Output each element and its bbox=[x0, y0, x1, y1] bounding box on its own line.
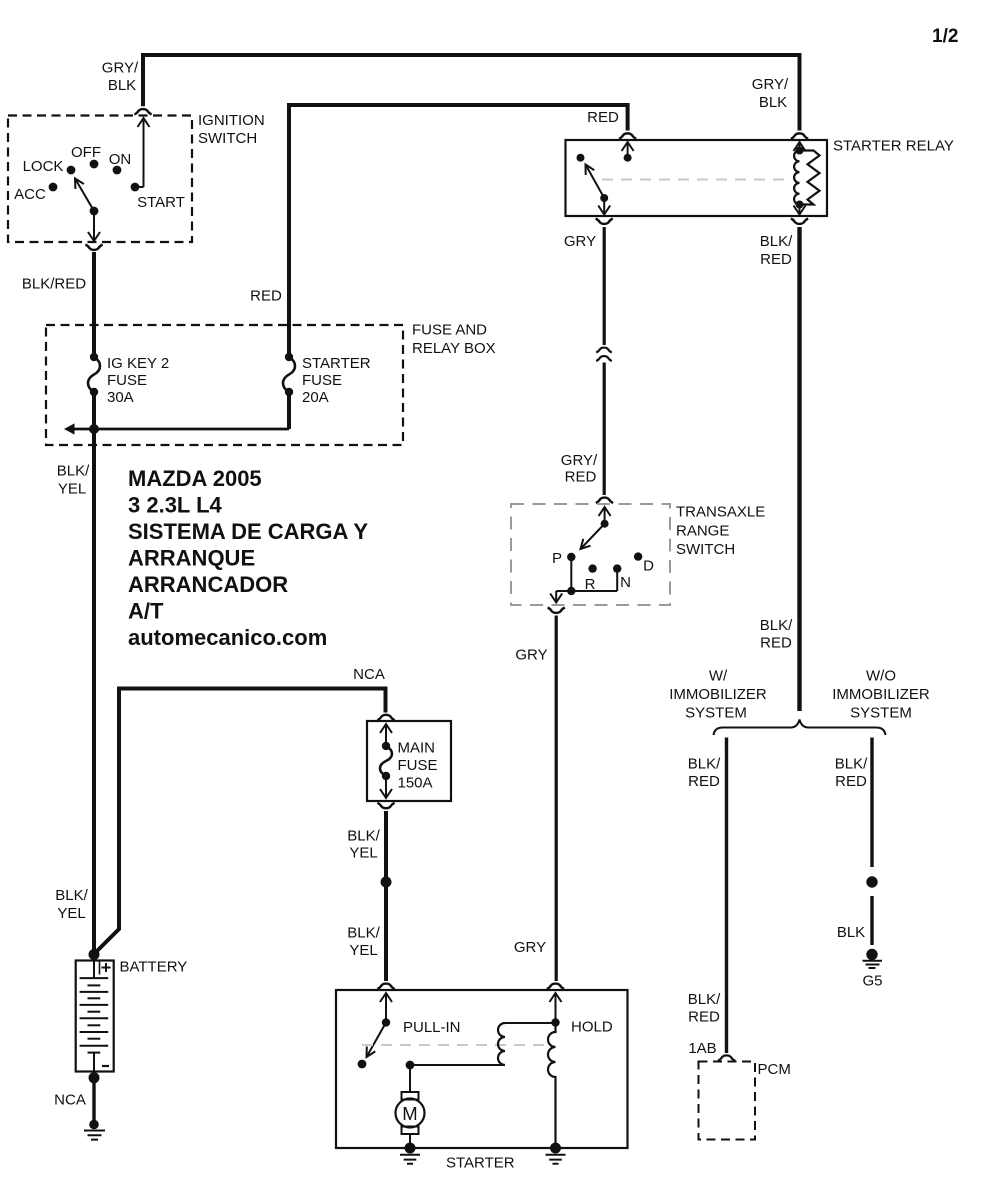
connector cup below relay switch bbox=[596, 219, 613, 224]
svg-text:YEL: YEL bbox=[58, 481, 86, 498]
svg-text:ACC: ACC bbox=[14, 186, 46, 203]
svg-text:D: D bbox=[643, 558, 654, 575]
ignition output arrow down bbox=[93, 211, 95, 240]
svg-text:RED: RED bbox=[250, 288, 282, 305]
svg-text:RED: RED bbox=[587, 109, 619, 126]
svg-text:BLK/: BLK/ bbox=[835, 756, 868, 773]
connector cup above starter relay coil pin bbox=[791, 133, 808, 138]
svg-text:BLK/: BLK/ bbox=[688, 991, 721, 1008]
svg-text:GRY/: GRY/ bbox=[752, 76, 789, 93]
battery BATTERY bbox=[76, 961, 114, 1072]
main fuse output arrow down bbox=[385, 776, 387, 797]
svg-text:1AB: 1AB bbox=[688, 1040, 716, 1057]
wire GRY/BLK ignition to starter relay bbox=[143, 55, 800, 131]
battery plates bbox=[80, 978, 109, 1053]
svg-text:automecanico.com: automecanico.com bbox=[128, 625, 327, 650]
wire BLK/RED relay to immobilizer brace bbox=[797, 227, 801, 711]
relay fixed contact bbox=[577, 154, 585, 162]
svg-text:IMMOBILIZER: IMMOBILIZER bbox=[832, 686, 930, 703]
svg-text:TRANSAXLE: TRANSAXLE bbox=[676, 504, 765, 521]
fuse IG KEY 2 30A bbox=[90, 353, 98, 361]
svg-text:BLK: BLK bbox=[837, 924, 865, 941]
MAIN FUSE box bbox=[367, 721, 451, 801]
motor M bbox=[402, 1092, 419, 1100]
svg-text:STARTER: STARTER bbox=[302, 355, 371, 372]
svg-text:STARTER: STARTER bbox=[446, 1155, 515, 1172]
connector cup below transaxle switch bbox=[548, 608, 565, 613]
wire with left arrow inside fuse box bbox=[72, 428, 289, 431]
svg-text:OFF: OFF bbox=[71, 144, 101, 161]
svg-text:RED: RED bbox=[688, 1009, 720, 1026]
svg-text:IMMOBILIZER: IMMOBILIZER bbox=[669, 686, 767, 703]
wire BLK/RED to PCM bbox=[725, 738, 728, 1054]
contact N bbox=[613, 564, 621, 572]
starter relay U1 box bbox=[566, 140, 828, 216]
connector cup above starter pull-in pin bbox=[377, 984, 394, 989]
svg-text:G5: G5 bbox=[862, 973, 882, 990]
connector cup at PCM bbox=[718, 1055, 735, 1060]
svg-text:BLK/: BLK/ bbox=[57, 463, 90, 480]
connector cup below relay coil bbox=[791, 219, 808, 224]
svg-text:BLK: BLK bbox=[108, 77, 136, 94]
starter hold input arrow up bbox=[555, 994, 557, 1023]
wire through STARTER fuse bbox=[287, 325, 291, 429]
svg-text:SYSTEM: SYSTEM bbox=[685, 705, 747, 722]
splice node bbox=[866, 876, 877, 887]
svg-text:BATTERY: BATTERY bbox=[120, 959, 188, 976]
fuse STARTER 20A bbox=[285, 353, 293, 361]
starter mechanical linkage dashed bbox=[362, 1044, 549, 1046]
connector cup at ignition switch top bbox=[134, 109, 151, 114]
pull-in coil top link to hold pin bbox=[505, 1022, 556, 1024]
svg-text:BLK: BLK bbox=[759, 94, 787, 111]
wire BLK/RED ignition to fuse box bbox=[92, 252, 96, 325]
svg-text:IGNITION: IGNITION bbox=[198, 112, 265, 129]
svg-text:BLK/: BLK/ bbox=[55, 887, 88, 904]
svg-text:M: M bbox=[402, 1103, 417, 1124]
hold coil L2 bbox=[548, 1023, 555, 1149]
svg-text:YEL: YEL bbox=[349, 942, 377, 959]
brace split symbol bbox=[714, 720, 886, 736]
battery bottom stub bbox=[93, 1053, 95, 1072]
splice node on BLK/YEL bbox=[381, 877, 392, 888]
wire NCA battery to main fuse bbox=[94, 689, 386, 955]
transaxle range switch box bbox=[511, 504, 670, 605]
relay mechanical linkage dashed bbox=[602, 179, 790, 181]
contact ON bbox=[113, 166, 122, 175]
wire through IG KEY 2 fuse bbox=[92, 325, 96, 445]
PCM box bbox=[699, 1062, 756, 1140]
ground starter motor bbox=[405, 1143, 416, 1154]
battery minus sign bbox=[102, 1065, 109, 1067]
svg-text:HOLD: HOLD bbox=[571, 1019, 613, 1036]
svg-text:N: N bbox=[620, 574, 631, 591]
svg-text:BLK/: BLK/ bbox=[760, 617, 793, 634]
svg-text:P: P bbox=[552, 550, 562, 567]
fuse MAIN 150A bbox=[382, 742, 390, 750]
fuse and relay box bbox=[46, 325, 403, 445]
relay moving contact arm bbox=[600, 194, 608, 202]
contact OFF bbox=[90, 160, 99, 169]
svg-text:SWITCH: SWITCH bbox=[676, 541, 735, 558]
in-line connector on GRY wire bbox=[596, 348, 612, 353]
ignition switch box bbox=[8, 116, 192, 243]
contact START bbox=[131, 183, 140, 192]
relay coil output arrow down bbox=[799, 205, 801, 214]
svg-text:FUSE: FUSE bbox=[107, 372, 147, 389]
ground battery bbox=[89, 1120, 99, 1130]
transaxle selector arm arrow to P bbox=[581, 524, 605, 549]
svg-text:RED: RED bbox=[760, 635, 792, 652]
svg-text:MAZDA 2005: MAZDA 2005 bbox=[128, 466, 262, 491]
svg-text:PULL-IN: PULL-IN bbox=[403, 1019, 461, 1036]
svg-text:A/T: A/T bbox=[128, 599, 164, 624]
svg-text:RED: RED bbox=[565, 469, 597, 486]
svg-text:ARRANQUE: ARRANQUE bbox=[128, 546, 255, 571]
svg-text:NCA: NCA bbox=[54, 1092, 86, 1109]
ground starter hold bbox=[550, 1143, 561, 1154]
svg-text:YEL: YEL bbox=[349, 845, 377, 862]
svg-text:FUSE: FUSE bbox=[302, 372, 342, 389]
relay coil pin arrow up bbox=[799, 143, 801, 151]
wire BLK/YEL main fuse to starter bbox=[384, 811, 388, 981]
svg-text:SYSTEM: SYSTEM bbox=[850, 705, 912, 722]
junction node at fuse box bbox=[89, 424, 99, 434]
svg-text:GRY/: GRY/ bbox=[102, 60, 139, 77]
connector cup below ignition switch bbox=[85, 245, 102, 250]
svg-text:SWITCH: SWITCH bbox=[198, 130, 257, 147]
starter switch arm arrow bbox=[367, 1023, 387, 1058]
connector cup below MAIN FUSE bbox=[377, 803, 394, 808]
pull-in coil bottom link to motor bbox=[410, 1064, 505, 1066]
battery negative node bbox=[89, 1072, 100, 1083]
relay pin RED with up arrow bbox=[627, 143, 629, 158]
main fuse input arrow up bbox=[385, 725, 387, 746]
contact P bbox=[567, 553, 575, 561]
relay coil parallel resistor bbox=[800, 151, 820, 205]
starter pull-in input arrow up bbox=[385, 994, 387, 1023]
wire BLK/RED to ground G5 bbox=[870, 738, 873, 946]
svg-text:BLK/RED: BLK/RED bbox=[22, 276, 86, 293]
svg-text:BLK/: BLK/ bbox=[347, 925, 380, 942]
svg-text:ARRANCADOR: ARRANCADOR bbox=[128, 572, 288, 597]
transaxle internal wiring P-N junction bbox=[556, 557, 617, 591]
svg-text:ON: ON bbox=[109, 151, 132, 168]
wire GRY relay to transaxle switch bbox=[603, 227, 606, 345]
starter box bbox=[336, 990, 628, 1148]
pull-in coil L1 bbox=[498, 1023, 505, 1065]
svg-text:BLK/: BLK/ bbox=[347, 828, 380, 845]
ignition internal wire START to top pin with arrow bbox=[135, 119, 144, 187]
svg-text:FUSE: FUSE bbox=[398, 757, 438, 774]
wire BLK/YEL fuse box to battery bbox=[92, 445, 96, 953]
connector cup above starter relay pin 1 bbox=[619, 133, 636, 138]
svg-text:YEL: YEL bbox=[57, 905, 85, 922]
svg-text:BLK/: BLK/ bbox=[688, 756, 721, 773]
svg-text:RED: RED bbox=[835, 773, 867, 790]
svg-text:START: START bbox=[137, 194, 185, 211]
svg-text:3 2.3L L4: 3 2.3L L4 bbox=[128, 493, 223, 518]
svg-text:SISTEMA DE CARGA Y: SISTEMA DE CARGA Y bbox=[128, 519, 368, 544]
svg-text:RANGE: RANGE bbox=[676, 523, 729, 540]
svg-text:GRY: GRY bbox=[515, 647, 547, 664]
contact LOCK bbox=[67, 166, 76, 175]
svg-text:STARTER RELAY: STARTER RELAY bbox=[833, 138, 954, 155]
relay coil bbox=[794, 151, 799, 205]
svg-text:RED: RED bbox=[760, 251, 792, 268]
svg-text:GRY: GRY bbox=[514, 939, 546, 956]
contact R bbox=[588, 564, 596, 572]
connector cup above starter hold pin bbox=[547, 984, 564, 989]
ignition rotor pivot bbox=[90, 207, 99, 216]
motor feed wire bbox=[409, 1065, 411, 1092]
battery junction node bbox=[89, 949, 100, 960]
svg-text:RED: RED bbox=[688, 773, 720, 790]
battery top stub bbox=[93, 961, 95, 979]
svg-text:W/: W/ bbox=[709, 668, 728, 685]
svg-text:FUSE AND: FUSE AND bbox=[412, 322, 487, 339]
battery plus terminal bbox=[99, 961, 101, 975]
connector cup above MAIN FUSE bbox=[377, 715, 394, 720]
svg-text:GRY: GRY bbox=[564, 233, 596, 250]
svg-text:30A: 30A bbox=[107, 389, 134, 406]
svg-text:RELAY BOX: RELAY BOX bbox=[412, 340, 496, 357]
svg-text:1/2: 1/2 bbox=[932, 26, 958, 47]
svg-text:IG KEY 2: IG KEY 2 bbox=[107, 355, 169, 372]
svg-text:LOCK: LOCK bbox=[23, 158, 64, 175]
wire NCA battery to ground bbox=[92, 1078, 95, 1122]
svg-text:150A: 150A bbox=[398, 775, 433, 792]
contact D bbox=[634, 552, 642, 560]
wire GRY transaxle to starter bbox=[555, 616, 558, 982]
contact ACC bbox=[49, 183, 58, 192]
connector cup above transaxle switch bbox=[596, 498, 613, 503]
svg-text:NCA: NCA bbox=[353, 666, 385, 683]
svg-text:W/O: W/O bbox=[866, 668, 896, 685]
motor ground wire bbox=[409, 1134, 411, 1148]
relay switch output arrow down bbox=[603, 198, 605, 213]
svg-text:BLK/: BLK/ bbox=[760, 233, 793, 250]
transaxle input arrow up bbox=[604, 508, 606, 524]
svg-text:MAIN: MAIN bbox=[398, 740, 436, 757]
svg-text:20A: 20A bbox=[302, 389, 329, 406]
svg-text:PCM: PCM bbox=[758, 1061, 791, 1078]
transaxle output arrow down bbox=[555, 591, 557, 601]
ignition rotor arm arrow toward LOCK bbox=[75, 179, 94, 212]
wire RED ignition-area to relay and fuse box bbox=[289, 105, 628, 325]
svg-text:GRY/: GRY/ bbox=[561, 452, 598, 469]
ground G5 bbox=[866, 949, 877, 960]
